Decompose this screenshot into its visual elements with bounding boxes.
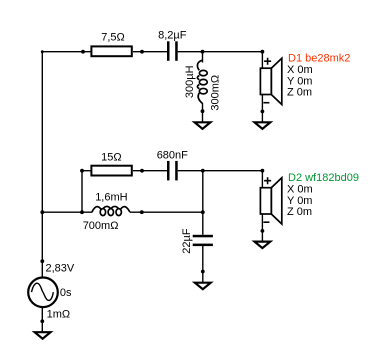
node A C1-L1-D1: [201, 50, 205, 54]
svg-text:Z 0m: Z 0m: [287, 206, 312, 218]
node split upper: [80, 169, 84, 173]
node bus to branch2: [40, 210, 44, 214]
node corner L2-C3: [201, 210, 205, 214]
capacitor C1: [167, 41, 178, 61]
svg-text:D2 wf182bd09: D2 wf182bd09: [288, 172, 359, 184]
node B C2-D2: [201, 169, 205, 173]
node D2 plus: [261, 169, 265, 173]
node L2 right: [140, 210, 144, 214]
node D2 minus: [261, 229, 265, 233]
wire R1 to C1: [133, 51, 167, 53]
svg-text:Y 0m: Y 0m: [287, 75, 312, 87]
wire L1 top lead: [202, 52, 204, 63]
wire D2 bottom lead to ground: [261, 214, 263, 241]
resistor R1: [91, 46, 131, 56]
speaker D2 wf182bd09: [260, 177, 281, 224]
wire D1 bottom lead to ground: [261, 94, 263, 121]
svg-text:22µF: 22µF: [181, 228, 193, 254]
wire C1 to D1 plus terminal: [178, 51, 263, 53]
inductor L1: [197, 60, 207, 103]
svg-text:680nF: 680nF: [157, 149, 188, 161]
svg-text:1mΩ: 1mΩ: [47, 309, 71, 321]
voltage source V1: [28, 278, 58, 308]
svg-text:300µH: 300µH: [184, 65, 196, 98]
wire top branch from bus to R1: [42, 51, 91, 53]
svg-text:15Ω: 15Ω: [101, 152, 121, 164]
ground L1: [195, 122, 211, 129]
resistor R2: [91, 166, 131, 176]
ground D2: [255, 242, 271, 249]
node R2-C2: [140, 169, 144, 173]
svg-text:7,5Ω: 7,5Ω: [101, 32, 125, 44]
svg-text:Z 0m: Z 0m: [287, 87, 312, 99]
svg-text:0s: 0s: [60, 287, 72, 299]
svg-text:700mΩ: 700mΩ: [83, 220, 119, 232]
svg-text:1,6mH: 1,6mH: [95, 191, 127, 203]
node split lower: [80, 210, 84, 214]
node top wire: [81, 50, 85, 54]
node C3 bottom: [201, 270, 205, 274]
ground D1: [255, 122, 271, 129]
svg-text:X 0m: X 0m: [287, 184, 313, 196]
speaker D1 be28mk2: [260, 58, 281, 105]
wire L1 bottom lead to ground: [202, 103, 204, 122]
wire R2 to C2: [133, 170, 167, 172]
svg-text:Y 0m: Y 0m: [287, 195, 312, 207]
ground source: [35, 332, 51, 339]
svg-text:X 0m: X 0m: [287, 64, 313, 76]
svg-text:300mΩ: 300mΩ: [209, 75, 221, 111]
wire D1 top lead: [261, 52, 263, 69]
wire source to ground: [41, 307, 43, 332]
capacitor C3: [193, 235, 213, 246]
wire L2 to node B corner: [130, 211, 203, 213]
wire C3 to ground: [202, 246, 204, 282]
wire riser split L2/R2: [82, 171, 91, 213]
node D1 plus: [261, 50, 265, 54]
node R1-C1: [140, 50, 144, 54]
node corner top-left: [41, 50, 44, 53]
wire left bus vertical: [41, 52, 43, 278]
node D1 minus: [261, 110, 265, 114]
svg-text:2,83V: 2,83V: [46, 263, 75, 275]
node above source: [40, 259, 44, 263]
wire node B down to C3: [202, 171, 204, 235]
node L1 bottom: [201, 109, 205, 113]
svg-text:D1 be28mk2: D1 be28mk2: [288, 53, 350, 65]
ground C3: [195, 283, 211, 290]
inductor L2: [92, 206, 130, 215]
capacitor C2: [167, 161, 178, 181]
wire branch2 lower from bus to L2: [42, 211, 92, 213]
node below source: [40, 319, 44, 323]
svg-text:8,2µF: 8,2µF: [158, 30, 187, 42]
wire C2 to D2 plus terminal: [178, 170, 263, 172]
wire D2 top lead: [261, 171, 263, 188]
